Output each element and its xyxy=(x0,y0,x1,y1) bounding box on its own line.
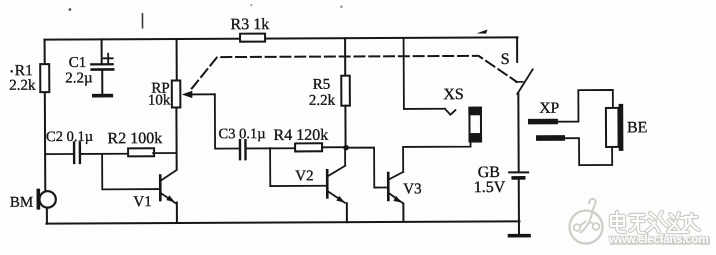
wire switch to battery xyxy=(517,94,519,171)
resistor R5 xyxy=(309,38,351,148)
svg-text:R3 1k: R3 1k xyxy=(230,16,269,33)
wire XP to BE bottom loop xyxy=(565,138,612,165)
transistor V1 xyxy=(133,170,177,223)
svg-text:2.2µ: 2.2µ xyxy=(65,70,93,86)
svg-text:V3: V3 xyxy=(403,181,421,197)
svg-text:R1: R1 xyxy=(15,62,33,79)
wire RP wiper to C3 xyxy=(215,94,239,148)
transistor V3 xyxy=(388,172,422,222)
svg-text:S: S xyxy=(501,51,510,68)
resistor R2 xyxy=(107,130,176,156)
wire left vertical (R1 branch) xyxy=(44,40,47,191)
svg-text:C2 0.1µ: C2 0.1µ xyxy=(46,129,93,145)
stray scan speck xyxy=(69,8,72,11)
battery GB xyxy=(474,164,529,236)
svg-text:R4 120k: R4 120k xyxy=(273,127,328,144)
svg-text:R2 100k: R2 100k xyxy=(107,130,162,147)
svg-text:2.2k: 2.2k xyxy=(9,78,36,94)
jack socket XS body xyxy=(443,86,482,142)
svg-text:XS: XS xyxy=(443,86,464,103)
capacitor C2 xyxy=(45,129,128,163)
stray scan mark xyxy=(141,14,143,28)
earphone BE xyxy=(606,104,648,151)
svg-text:2.2k: 2.2k xyxy=(309,93,336,109)
node junction R4/R5/V2/V3 xyxy=(343,145,349,151)
resistor R3 xyxy=(230,16,269,42)
svg-text:www.elecfans.com: www.elecfans.com xyxy=(608,232,709,246)
transistor V2 xyxy=(295,148,347,223)
svg-text:XP: XP xyxy=(539,100,559,117)
plug XP prong 2 xyxy=(536,135,565,141)
capacitor C3 xyxy=(218,126,295,159)
wire V1 base drop xyxy=(102,154,159,190)
microphone BM xyxy=(10,189,56,224)
svg-text:V1: V1 xyxy=(133,194,151,210)
svg-text:10k: 10k xyxy=(148,93,171,109)
wire V3 collector to jack XS xyxy=(403,141,471,172)
wire top supply rail xyxy=(45,37,518,39)
dashed mechanical link RP-S xyxy=(192,56,517,89)
wire bottom ground rail xyxy=(46,221,519,223)
wire XS branch from rail xyxy=(404,38,445,109)
svg-text:V2: V2 xyxy=(295,168,313,184)
svg-text:1.5V: 1.5V xyxy=(474,179,506,196)
svg-text:C1: C1 xyxy=(69,55,87,71)
wire V2 base drop xyxy=(270,148,326,186)
svg-text:C3 0.1µ: C3 0.1µ xyxy=(218,126,265,142)
svg-text:BM: BM xyxy=(10,195,33,211)
watermark logo circle xyxy=(570,199,603,244)
potentiometer RP xyxy=(148,39,216,169)
switch S xyxy=(501,37,533,94)
small tick on top rail xyxy=(477,30,488,34)
resistor R1 xyxy=(9,62,49,94)
jack spring contact xyxy=(445,109,456,115)
plug XP prong 1 xyxy=(528,119,558,125)
capacitor C1 (electrolytic) xyxy=(65,39,113,96)
watermark chinese characters xyxy=(611,212,699,233)
wire node to V3 base xyxy=(346,148,387,188)
svg-text:R5: R5 xyxy=(313,77,331,93)
wire XP to BE top loop xyxy=(558,90,613,122)
svg-text:BE: BE xyxy=(627,119,648,136)
resistor R4 xyxy=(273,127,346,152)
